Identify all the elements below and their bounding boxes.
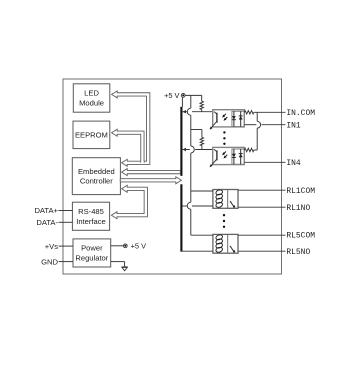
outer frame — [63, 79, 282, 274]
node +5V output terminal — [123, 244, 127, 248]
wire +5V to RL1 coil — [191, 190, 213, 192]
optocoupler U2 (IN4) body — [213, 147, 245, 164]
relay RL1 switch — [230, 201, 235, 208]
junction patch — [141, 162, 144, 165]
relay RL1 divider — [227, 190, 229, 209]
wire +5V to bus — [181, 97, 183, 107]
wire RL1NO — [238, 206, 286, 208]
svg-text:Module: Module — [79, 99, 104, 108]
bus vertical (upper segment) — [180, 107, 182, 176]
svg-text:GND: GND — [41, 257, 58, 266]
svg-text:RL5NO: RL5NO — [286, 248, 310, 257]
ground symbol — [121, 267, 127, 271]
relay RL5 divider — [227, 234, 229, 253]
wire to R1 — [201, 95, 203, 101]
resistor R1 (IN1 pull-up) — [200, 101, 203, 109]
relay RL5 body — [213, 234, 238, 253]
wire Power Regulator +5V output — [111, 245, 124, 247]
wire R2 to IN4 collector — [201, 146, 203, 150]
wire IN4 — [244, 161, 285, 163]
anti-parallel LEDs of U2 (IN4) — [232, 149, 243, 164]
wire DATA+ to RS-485 — [59, 210, 73, 212]
light arrows of U1 (IN1) — [222, 114, 227, 121]
wire IN.COM down-link lower — [256, 128, 258, 150]
wire Power Regulator ground — [111, 261, 125, 263]
svg-text:+Vs: +Vs — [45, 242, 58, 251]
wire hop over IN4 collector wire — [191, 146, 195, 153]
wire +5V rail horizontal — [185, 94, 202, 96]
wire bus to RL1 coil (left of hop) — [182, 205, 187, 207]
phototransistor of U1 (IN1) — [210, 112, 217, 130]
arrow IN1 signal into bus — [183, 110, 186, 113]
wire to R2 — [201, 130, 203, 138]
relay RL5 switch — [230, 246, 235, 253]
wire RL1COM — [238, 189, 286, 191]
phototransistor of U2 (IN4) — [210, 149, 217, 167]
wire hop over relay RL1 coil wire — [187, 202, 190, 209]
svg-text:IN4: IN4 — [286, 159, 301, 168]
wire bus to RL1 coil (right of hop) — [192, 205, 213, 207]
wire R1 to IN1 collector — [201, 110, 203, 112]
ellipsis dots (inputs IN2..IN3) — [223, 131, 225, 145]
wire IN1 (right of hop) — [262, 124, 286, 126]
EEPROM block U-EEPROM — [73, 121, 110, 149]
wire ground drop — [124, 262, 126, 267]
svg-text:+5 V: +5 V — [164, 91, 179, 100]
relay RL1 coil — [215, 189, 223, 208]
RS-485 Interface block U-485 — [72, 202, 109, 230]
arrow Controller to LED Module (bidirectional) — [112, 91, 150, 166]
relay RL1 body — [213, 190, 238, 209]
relay RL5 coil — [215, 234, 223, 253]
wire +5V feed segment 4 — [190, 209, 192, 235]
arrow Controller to RS-485 (bidirectional) — [111, 185, 147, 218]
svg-text:LED: LED — [84, 89, 99, 98]
input LED pair box of U1 (IN1) — [232, 111, 244, 126]
Embedded Controller block U-MCU — [72, 158, 120, 195]
wire RL5NO — [238, 250, 286, 252]
wire IN4 collector (left of hop) — [183, 149, 190, 151]
wire +5V feed segment 2 — [190, 115, 192, 146]
ellipsis dots (relays RL2..RL4) — [223, 214, 225, 228]
svg-text:RL5COM: RL5COM — [286, 232, 315, 241]
svg-text:Power: Power — [81, 244, 103, 253]
resistor R3 (IN1 series) — [244, 111, 254, 114]
arrow bus to Controller — [122, 169, 181, 176]
svg-text:EEPROM: EEPROM — [75, 130, 108, 139]
wire GND to Power Regulator — [59, 261, 74, 263]
svg-text:RS-485: RS-485 — [78, 207, 104, 216]
svg-text:IN1: IN1 — [286, 121, 301, 130]
wire bus to RL5 coil (driver) — [182, 250, 213, 252]
wire +5V to RL5 coil — [191, 234, 213, 236]
resistor R4 (IN4 series) — [244, 148, 254, 151]
svg-text:Interface: Interface — [76, 217, 106, 226]
anti-parallel LEDs of U1 (IN1) — [232, 111, 243, 126]
light arrows of U2 (IN4) — [222, 152, 227, 159]
wire IN.COM down-link upper — [256, 112, 258, 121]
wire DATA- to RS-485 — [59, 221, 73, 223]
wire RL5COM — [238, 234, 286, 236]
wire hop over IN1 line — [257, 121, 260, 128]
optocoupler U1 (IN1) body — [213, 110, 245, 127]
wire +5V feed segment 3 — [190, 153, 192, 202]
LED Module block U-LED — [73, 84, 110, 112]
arrow Controller to bus — [120, 177, 181, 184]
svg-text:Regulator: Regulator — [75, 253, 108, 262]
arrow branch to EEPROM — [112, 129, 144, 162]
wire IN1 collector (left of hop) — [183, 111, 187, 113]
node +5V terminal — [181, 94, 185, 98]
input LED pair box of U2 (IN4) — [232, 149, 244, 164]
wire IN1 (left of hop) — [244, 124, 256, 126]
svg-text:RL1COM: RL1COM — [286, 187, 315, 196]
bus vertical (lower segment) — [180, 184, 182, 251]
wire IN1 collector (right of hop) — [192, 111, 213, 113]
svg-text:RL1NO: RL1NO — [286, 204, 310, 213]
svg-text:Embedded: Embedded — [78, 167, 115, 176]
wire hop over IN1 collector wire — [187, 108, 190, 115]
wire +5V branch to R2 — [191, 129, 202, 131]
Power Regulator block U-PWR — [73, 239, 111, 267]
svg-text:DATA+: DATA+ — [34, 206, 58, 215]
resistor R2 (IN4 pull-up) — [200, 137, 203, 145]
wire +5V feed drop — [190, 95, 192, 108]
wire IN4 collector (right of hop) — [195, 149, 213, 151]
svg-text:DATA-: DATA- — [36, 218, 58, 227]
wire R4 to IN.COM link — [254, 149, 257, 151]
svg-text:+5 V: +5 V — [131, 242, 146, 251]
svg-text:IN.COM: IN.COM — [286, 109, 315, 118]
wire +Vs to Power Regulator — [59, 245, 74, 247]
wire IN.COM — [254, 111, 286, 113]
arrow IN4 signal into bus — [183, 148, 186, 151]
svg-text:Controller: Controller — [80, 177, 113, 186]
